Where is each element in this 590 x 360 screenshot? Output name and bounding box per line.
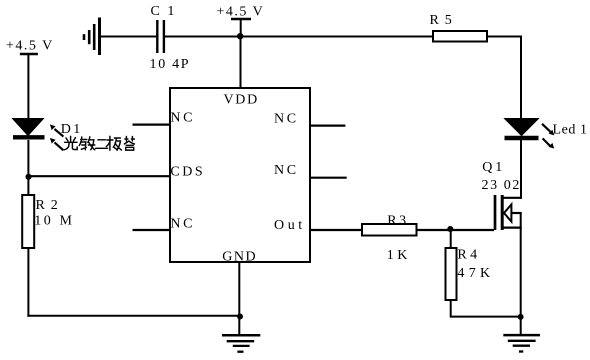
photodiode D1	[13, 119, 64, 151]
wire node B to R4	[450, 230, 452, 248]
wire Out to R3	[310, 229, 363, 231]
svg-text:10 4P: 10 4P	[150, 57, 191, 72]
resistor R4	[446, 248, 457, 300]
wire VDD	[240, 37, 242, 89]
ground (center bottom)	[222, 335, 260, 351]
ground (top-left, rotated)	[84, 18, 100, 56]
power +4.5V (left)	[6, 39, 54, 119]
wire bottom rail to GND node	[27, 315, 239, 317]
LED Led1	[505, 119, 555, 149]
svg-text:Out: Out	[274, 218, 306, 233]
node D1 junction	[25, 174, 31, 180]
node A (junction dot)	[237, 33, 243, 39]
svg-text:R3: R3	[387, 213, 408, 228]
IC U1	[170, 88, 310, 262]
wire R2 down to bottom rail	[27, 248, 29, 317]
svg-text:VDD: VDD	[224, 92, 259, 107]
svg-text:D1: D1	[61, 122, 83, 137]
wire R3 to Q1 gate	[417, 229, 495, 231]
wire LED to Q1 drain	[520, 140, 522, 199]
svg-text:R 2: R 2	[36, 198, 59, 213]
svg-text:+4.5 V: +4.5 V	[6, 39, 54, 54]
wire R4 bottom to source node	[451, 316, 521, 318]
wire corner down to LED	[520, 37, 522, 120]
resistor R3	[362, 224, 417, 236]
resistor R5	[433, 31, 487, 42]
wire D1 to R2	[27, 140, 29, 195]
svg-text:C 1: C 1	[151, 4, 177, 19]
node GND junction	[237, 314, 243, 320]
wire R5 to corner	[487, 36, 522, 38]
svg-text:R 5: R 5	[430, 13, 453, 28]
wire ground to C1	[100, 36, 157, 38]
svg-text:NC: NC	[170, 111, 195, 126]
svg-text:+4.5 V: +4.5 V	[217, 4, 265, 19]
wire stub NC left bottom	[133, 229, 171, 231]
wire R4 to ground rail	[450, 300, 452, 318]
svg-text:Led 1: Led 1	[553, 122, 588, 137]
svg-text:NC: NC	[274, 111, 299, 126]
resistor R2	[22, 195, 34, 248]
svg-text:NC: NC	[274, 163, 299, 178]
svg-text:23 02: 23 02	[482, 178, 522, 193]
wire C1 to node A	[165, 36, 433, 38]
svg-text:R4: R4	[457, 247, 480, 262]
svg-text:47K: 47K	[457, 266, 494, 281]
wire Q1 source down	[520, 213, 522, 317]
wire source node to ground	[520, 317, 522, 336]
wire stub NC right mid	[310, 177, 347, 179]
svg-text:10 M: 10 M	[34, 214, 74, 229]
svg-text:Q1: Q1	[482, 160, 505, 175]
capacitor C1	[157, 20, 164, 53]
svg-text:CDS: CDS	[170, 164, 205, 179]
label 光敏二极管 (photodiode, drawn strokes)	[64, 136, 134, 150]
svg-text:NC: NC	[170, 217, 195, 232]
ground (bottom right)	[503, 335, 540, 351]
node C (source junction)	[518, 314, 524, 320]
wire CDS	[28, 175, 170, 177]
wire GND pin down	[238, 262, 240, 336]
transistor Q1 (NMOS)	[495, 195, 522, 230]
power +4.5V (top)	[217, 4, 265, 36]
svg-text:1K: 1K	[387, 248, 411, 263]
node B (gate junction)	[447, 226, 453, 232]
wire stub NC left top	[133, 123, 171, 125]
wire stub NC right top	[310, 124, 345, 126]
